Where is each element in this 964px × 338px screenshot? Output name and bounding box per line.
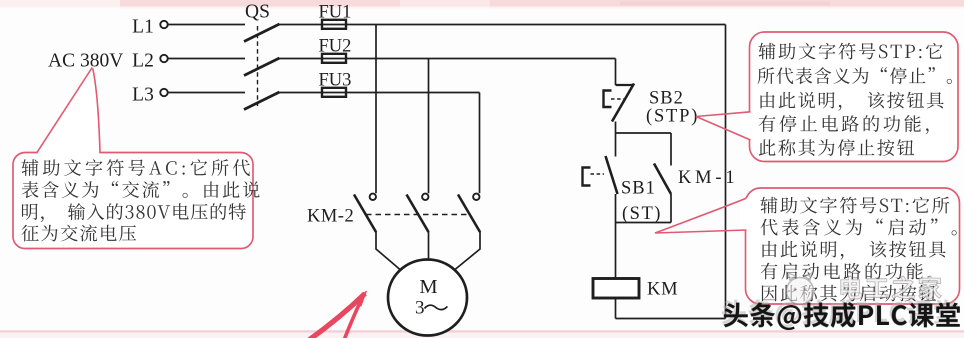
wire L3 phase drop to KM-2 xyxy=(479,93,481,194)
wire L1 to QS xyxy=(169,24,246,26)
wire KM-2 pole 3 to motor xyxy=(455,231,480,270)
switch QS pole 3 blade xyxy=(244,92,280,110)
contactor KM-2 pole 3 fixed contact arc xyxy=(473,194,479,200)
wire KM-1 to bottom junction xyxy=(670,194,672,223)
svg-text:(STP): (STP) xyxy=(646,107,699,127)
bottom-right callout text line 5 xyxy=(762,285,936,302)
svg-text:QS: QS xyxy=(245,2,270,23)
svg-text:M: M xyxy=(419,276,437,298)
top-right callout text line 3 xyxy=(760,92,943,111)
pushbutton SB2 fixed contact tick xyxy=(616,84,635,86)
top pink strip xyxy=(0,0,964,7)
wire top junction bar xyxy=(616,132,672,134)
wire right rail from L1 xyxy=(725,25,727,319)
svg-text:L2: L2 xyxy=(132,51,154,72)
motor M circle xyxy=(388,260,467,336)
contactor KM-2 pole 2 blade xyxy=(407,195,429,233)
wire QS to FU3 and on to motor branch xyxy=(280,92,480,94)
terminal L2 xyxy=(160,55,167,62)
fuse FU3 xyxy=(322,88,346,97)
fuse FU2 xyxy=(322,54,346,63)
svg-text:FU3: FU3 xyxy=(319,71,352,91)
left callout text line 1 xyxy=(22,159,250,176)
top-right callout text line 5 xyxy=(759,139,915,156)
top-right callout box xyxy=(750,32,959,162)
svg-text:3: 3 xyxy=(415,297,425,318)
contactor KM-2 pole 1 fixed contact arc xyxy=(370,194,376,200)
contactor KM-2 pole 3 blade xyxy=(458,195,480,233)
coil KM xyxy=(593,279,639,299)
wire KM-2 pole 2 to motor xyxy=(428,231,430,260)
wire L2 to QS xyxy=(169,58,246,60)
pushbutton SB2 operator dashed link xyxy=(611,98,624,100)
svg-text:FU2: FU2 xyxy=(319,37,352,57)
left callout text line 2 xyxy=(22,181,260,198)
watermark 头条@技成PLC课堂 xyxy=(724,302,960,330)
left callout text line 3 xyxy=(22,203,246,222)
svg-text:(ST): (ST) xyxy=(622,204,662,224)
bottom-right callout box xyxy=(746,188,960,304)
wire bottom rail xyxy=(616,318,726,320)
contactor KM-2 pole 2 fixed contact arc xyxy=(422,194,428,200)
svg-text:KM-2: KM-2 xyxy=(307,207,354,227)
watermark ghost copy xyxy=(722,299,958,327)
top-right callout pointer to SB2 xyxy=(742,112,752,141)
svg-text:AC 380V: AC 380V xyxy=(48,51,123,72)
bottom-right callout text line 3 xyxy=(762,241,945,260)
svg-text:FU1: FU1 xyxy=(319,3,352,23)
top-right callout text line 2 xyxy=(758,67,952,84)
wire junction to coil KM xyxy=(615,223,617,279)
switch QS pole 1 blade xyxy=(244,24,280,42)
left callout pointer from AC 380V xyxy=(37,68,101,155)
wire junction to SB1 xyxy=(615,133,617,157)
wire L3 to QS xyxy=(169,92,246,94)
bottom-right callout text line 1 xyxy=(761,197,950,214)
top-right callout text line 4 xyxy=(759,115,929,134)
svg-text:L3: L3 xyxy=(132,85,154,106)
terminal L3 xyxy=(160,89,167,96)
wire SB1 to bottom junction xyxy=(615,194,617,223)
bottom pink strip xyxy=(0,330,964,332)
svg-text:SB2: SB2 xyxy=(649,89,684,109)
fuse FU1 xyxy=(322,20,346,29)
pushbutton SB1 operator E xyxy=(583,168,591,186)
top-right callout text line 1 xyxy=(759,43,943,60)
svg-text:SB1: SB1 xyxy=(621,179,656,199)
svg-text:KM-1: KM-1 xyxy=(678,168,738,188)
bottom-right callout pointer to SB1 junction xyxy=(740,198,748,231)
motor label tilde xyxy=(425,305,448,309)
wire L2 phase drop to KM-2 xyxy=(428,59,430,194)
bottom-right callout text line 4 xyxy=(761,263,931,282)
faint cat logo watermark xyxy=(787,273,814,305)
faint watermark text xyxy=(841,276,942,299)
wire SB2 to top junction xyxy=(615,122,617,134)
pushbutton SB2 blade xyxy=(612,84,634,122)
contactor KM-2 linkage dashed line xyxy=(366,214,470,216)
switch QS pole 2 blade xyxy=(244,58,280,76)
contactor KM-2 pole 1 blade xyxy=(354,195,376,233)
pushbutton SB1 operator dashed link xyxy=(591,173,605,175)
wire junction to KM-1 xyxy=(670,133,672,166)
svg-text:L1: L1 xyxy=(132,17,154,38)
svg-text:KM: KM xyxy=(647,280,678,300)
red arrow pointing to motor xyxy=(309,291,367,338)
wire coil KM to bottom rail xyxy=(615,298,617,319)
bottom-right callout text line 2 xyxy=(761,218,957,235)
wire KM-2 pole 1 to motor xyxy=(376,231,400,270)
pushbutton SB1 blade xyxy=(606,156,618,194)
pushbutton SB2 operator E xyxy=(604,91,612,108)
wire bottom junction bar xyxy=(616,222,672,224)
wire L2 branch down to SB2 xyxy=(615,59,617,86)
wire QS to FU2 and on to control branch xyxy=(280,58,616,60)
wire L1 phase drop to KM-2 xyxy=(375,25,377,194)
wire QS to FU1 and on to right side xyxy=(280,24,726,26)
contact KM-1 blade xyxy=(654,164,671,195)
terminal L1 xyxy=(160,21,167,28)
left callout box xyxy=(13,153,253,249)
left callout text line 4 xyxy=(21,225,136,242)
switch QS linkage dashed line xyxy=(257,26,259,106)
